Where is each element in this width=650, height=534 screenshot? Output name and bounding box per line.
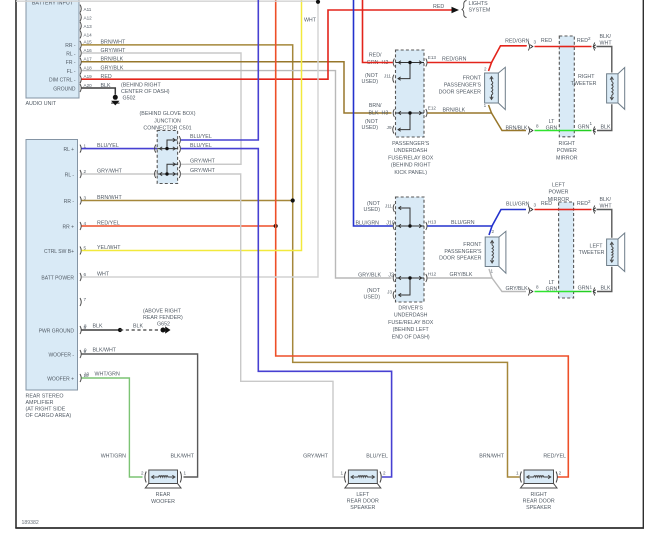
- svg-text:1: 1: [589, 284, 592, 289]
- svg-text:E13: E13: [428, 55, 437, 60]
- svg-text:J2: J2: [388, 272, 394, 278]
- svg-text:WHT: WHT: [600, 40, 613, 46]
- audio unit pin A16: [80, 49, 81, 57]
- svg-text:RL -: RL -: [65, 172, 75, 178]
- svg-text:GRY/BLK: GRY/BLK: [506, 286, 529, 292]
- ground G652: [161, 328, 166, 333]
- svg-text:RL -: RL -: [66, 51, 76, 57]
- wire front passenger speaker pin2 branch to right mirror: [492, 46, 527, 63]
- left power mirror box: [559, 202, 574, 298]
- svg-text:PWR GROUND: PWR GROUND: [39, 328, 75, 334]
- connector 3 right mirror top: [528, 43, 529, 51]
- svg-text:2: 2: [84, 169, 87, 174]
- svg-text:GRN: GRN: [578, 124, 590, 130]
- amplifier pin 8: [80, 326, 81, 334]
- svg-text:DOOR SPEAKER: DOOR SPEAKER: [439, 89, 482, 95]
- wire front passenger speaker pin1 branch to right mirror: [492, 113, 527, 131]
- svg-text:DIM CTRL -: DIM CTRL -: [49, 78, 76, 84]
- svg-text:USED): USED): [362, 79, 379, 85]
- svg-text:GRY/WHT: GRY/WHT: [101, 48, 127, 54]
- connector 8 left mirror bottom: [528, 288, 529, 296]
- audio unit pin A18: [80, 67, 81, 75]
- svg-text:USED): USED): [362, 125, 379, 131]
- svg-text:(ABOVE RIGHT: (ABOVE RIGHT: [143, 309, 182, 315]
- C501 internal GRY/WHT junction: [157, 173, 177, 175]
- svg-text:H13: H13: [428, 220, 437, 225]
- svg-text:FUSE/RELAY BOX: FUSE/RELAY BOX: [388, 155, 434, 161]
- wire amp pin9 BLK/WHT to rear woofer pin 1: [82, 354, 198, 477]
- svg-text:WOOFER +: WOOFER +: [47, 376, 74, 382]
- svg-text:BLK: BLK: [133, 324, 143, 330]
- svg-text:BLK: BLK: [93, 324, 103, 330]
- svg-text:8: 8: [536, 124, 539, 129]
- lights system arrow: [452, 7, 460, 13]
- left tweeter: [607, 239, 618, 266]
- svg-text:A14: A14: [84, 33, 93, 38]
- wire left tweeter bottom BLK: [597, 267, 612, 292]
- svg-text:GRY/BLK: GRY/BLK: [358, 272, 381, 278]
- svg-text:BLU/YEL: BLU/YEL: [366, 454, 388, 460]
- svg-text:GRY/BLK: GRY/BLK: [450, 272, 473, 278]
- svg-text:BLK/WHT: BLK/WHT: [170, 454, 194, 460]
- svg-text:RR +: RR +: [62, 224, 74, 230]
- C501 internal BLU/YEL junction: [157, 148, 177, 150]
- amplifier pin 4: [80, 222, 81, 230]
- amplifier pin 2: [80, 170, 81, 178]
- svg-text:GRY/WHT: GRY/WHT: [97, 168, 123, 174]
- amplifier pin 9: [80, 350, 81, 358]
- wire BLK/WHT to left tweeter: [597, 210, 612, 238]
- svg-text:BRN/BLK: BRN/BLK: [443, 107, 466, 113]
- svg-text:RIGHT: RIGHT: [559, 141, 576, 147]
- svg-text:1: 1: [484, 103, 487, 108]
- svg-text:RR -: RR -: [65, 43, 76, 49]
- svg-text:SPEAKER: SPEAKER: [526, 505, 551, 511]
- svg-text:RED: RED: [541, 201, 552, 207]
- passenger fuse box internal H2-E13 with J11 branch: [396, 62, 425, 64]
- svg-text:A16: A16: [84, 48, 93, 53]
- wire A18 GRY/BLK to driver fuse box J2: [82, 71, 392, 278]
- amplifier pin 3: [80, 197, 81, 205]
- svg-text:WHT/GRN: WHT/GRN: [101, 454, 126, 460]
- svg-text:189382: 189382: [22, 520, 39, 526]
- svg-text:G652: G652: [157, 322, 170, 328]
- wire RED/GRN riser into H2: [363, 0, 393, 63]
- svg-text:1: 1: [184, 471, 187, 476]
- svg-text:3: 3: [534, 203, 537, 208]
- wire A19 RED to lights system: [82, 10, 452, 79]
- wire E13 RED/GRN to front passenger door speaker pin 2: [427, 63, 491, 72]
- wire H13 BLU/GRN to front driver door speaker pin 2: [427, 226, 492, 235]
- svg-text:6: 6: [84, 272, 87, 277]
- wire amp pin1 BLU/YEL into C501: [82, 148, 158, 150]
- svg-text:BLU/YEL: BLU/YEL: [190, 143, 212, 149]
- svg-text:BLU/GRN: BLU/GRN: [451, 220, 475, 226]
- svg-text:2: 2: [484, 66, 487, 71]
- svg-text:1: 1: [516, 471, 519, 476]
- svg-text:GRY/WHT: GRY/WHT: [190, 159, 216, 165]
- wire C501 GRY/WHT branch to A16: [181, 163, 241, 165]
- svg-text:8: 8: [84, 324, 87, 329]
- svg-text:BRN/BLK: BRN/BLK: [506, 125, 528, 131]
- svg-text:H3: H3: [382, 111, 389, 117]
- svg-text:J11: J11: [385, 204, 393, 209]
- amplifier pin 1: [80, 145, 81, 153]
- svg-text:REAR: REAR: [156, 492, 171, 498]
- svg-text:(BEHIND RIGHT: (BEHIND RIGHT: [121, 82, 161, 88]
- connector 2 right mirror top: [594, 43, 595, 51]
- svg-text:FL -: FL -: [67, 69, 76, 75]
- right power mirror box: [559, 36, 574, 137]
- svg-text:J3: J3: [387, 290, 392, 295]
- svg-text:FR -: FR -: [66, 60, 76, 66]
- svg-text:2: 2: [383, 471, 386, 476]
- lights system bracket: [462, 1, 467, 18]
- svg-text:WHT/GRN: WHT/GRN: [95, 372, 120, 378]
- wire E12 BRN/BLK to front passenger door speaker pin 1: [427, 105, 491, 113]
- amplifier pin 10: [80, 374, 81, 382]
- svg-text:RED: RED: [577, 38, 588, 44]
- svg-text:AMPLIFIER: AMPLIFIER: [26, 400, 54, 406]
- svg-text:RED/GRN: RED/GRN: [505, 39, 530, 45]
- svg-text:J9: J9: [387, 125, 392, 130]
- svg-text:SPEAKER: SPEAKER: [350, 505, 375, 511]
- svg-text:USED): USED): [364, 294, 381, 300]
- svg-text:REAR STEREO: REAR STEREO: [26, 394, 64, 400]
- svg-text:WHT: WHT: [600, 203, 613, 209]
- wire driver speaker pin2 branch to left mirror: [492, 210, 526, 227]
- svg-text:A11: A11: [84, 7, 92, 12]
- svg-text:PASSENGER'S: PASSENGER'S: [392, 141, 430, 147]
- svg-text:POWER: POWER: [557, 148, 577, 154]
- wire LT GRN into right mirror bottom: [535, 130, 575, 132]
- driver fuse box internal J10-H13 with J11 branch: [396, 225, 425, 227]
- svg-text:GRY/WHT: GRY/WHT: [303, 454, 329, 460]
- svg-text:DRIVER'S: DRIVER'S: [398, 306, 423, 312]
- svg-text:JUNCTION: JUNCTION: [154, 118, 181, 124]
- wire RED into right mirror top: [535, 46, 560, 48]
- wire A16 GRY/WHT to junction connector C501: [82, 53, 242, 164]
- svg-text:A15: A15: [84, 40, 93, 45]
- svg-text:LEFT: LEFT: [356, 492, 370, 498]
- audio unit pin A11: [80, 5, 81, 13]
- wire BLK/WHT to right tweeter: [597, 47, 612, 73]
- driver fuse box internal J2-H12 with J3 branch: [396, 277, 425, 279]
- svg-text:LT: LT: [549, 280, 556, 286]
- svg-text:9: 9: [84, 348, 87, 353]
- page border bottom: [15, 527, 644, 529]
- svg-text:BRN/WHT: BRN/WHT: [97, 195, 122, 201]
- wire H12 GRY/BLK to front driver door speaker pin 1: [427, 269, 492, 278]
- svg-text:REAR DOOR: REAR DOOR: [523, 499, 555, 505]
- ground G502: [113, 95, 118, 100]
- junction connector C501 box: [157, 131, 177, 184]
- wire RED out of right mirror: [574, 46, 591, 48]
- svg-text:FUSE/RELAY BOX: FUSE/RELAY BOX: [388, 320, 434, 326]
- svg-text:1: 1: [589, 121, 592, 126]
- svg-text:A12: A12: [84, 16, 93, 21]
- svg-text:GROUND: GROUND: [53, 86, 76, 92]
- wire RED/YEL riser to right rear door speaker pin 2: [276, 0, 569, 477]
- svg-text:WHT: WHT: [97, 271, 110, 277]
- svg-text:4: 4: [84, 221, 87, 226]
- svg-text:3: 3: [84, 195, 87, 200]
- rear stereo amplifier box: [26, 140, 78, 391]
- svg-text:POWER: POWER: [548, 190, 568, 196]
- svg-text:OF CARGO AREA): OF CARGO AREA): [26, 413, 72, 419]
- svg-text:CENTER OF DASH): CENTER OF DASH): [121, 89, 170, 95]
- svg-text:BLK: BLK: [601, 285, 611, 291]
- wire RED out of left mirror: [574, 209, 592, 211]
- amplifier pin 7: [80, 298, 81, 306]
- svg-text:2: 2: [491, 229, 494, 234]
- svg-text:BLK/: BLK/: [600, 197, 612, 203]
- wire GRN inside-right of left mirror: [574, 291, 592, 293]
- svg-text:BLK/WHT: BLK/WHT: [93, 348, 117, 354]
- svg-text:USED): USED): [364, 207, 381, 213]
- svg-text:E12: E12: [428, 106, 437, 111]
- svg-text:BLU/YEL: BLU/YEL: [190, 134, 212, 140]
- right rear door speaker: [524, 470, 554, 484]
- wire C501 GRY/WHT main to left rear door speaker pin 1: [181, 174, 345, 477]
- wire amp pin3 BRN/WHT to junction with A15 line: [82, 200, 293, 202]
- svg-text:A13: A13: [84, 24, 93, 29]
- wire RED inside left mirror: [559, 209, 574, 211]
- svg-text:MIRROR: MIRROR: [556, 155, 578, 161]
- svg-text:BLU/YEL: BLU/YEL: [97, 143, 119, 149]
- svg-text:RED/: RED/: [369, 53, 382, 59]
- svg-text:G502: G502: [123, 96, 136, 102]
- svg-text:A17: A17: [84, 57, 93, 62]
- connector 1 left mirror bottom: [594, 288, 595, 296]
- connector 1 right mirror bottom: [594, 127, 595, 135]
- audio unit pin A13: [80, 22, 81, 30]
- svg-text:TWEETER: TWEETER: [571, 81, 597, 87]
- svg-text:A19: A19: [84, 74, 93, 79]
- svg-text:BRN/WHT: BRN/WHT: [479, 454, 504, 460]
- svg-text:7: 7: [84, 297, 87, 302]
- svg-text:2: 2: [559, 471, 562, 476]
- connector 3 left mirror top: [528, 206, 529, 214]
- svg-text:BRN/BLK: BRN/BLK: [101, 57, 124, 63]
- svg-text:RR -: RR -: [64, 199, 75, 205]
- svg-text:AUDIO UNIT: AUDIO UNIT: [26, 101, 57, 107]
- wire right tweeter bottom BLK: [597, 104, 612, 130]
- svg-text:FRONT: FRONT: [463, 75, 482, 81]
- amplifier pin 5: [80, 247, 81, 255]
- wire RED into left mirror top: [535, 209, 559, 211]
- wire amp pin10 WHT/GRN to rear woofer pin 2: [82, 378, 143, 477]
- wire RED inside right mirror: [559, 46, 574, 48]
- audio unit pin A15: [80, 41, 81, 49]
- svg-text:PASSENGER'S: PASSENGER'S: [444, 249, 482, 255]
- passenger underdash fuse/relay box: [396, 50, 425, 137]
- svg-text:BLK: BLK: [601, 124, 611, 130]
- svg-text:1: 1: [84, 143, 87, 148]
- svg-text:UNDERDASH: UNDERDASH: [394, 148, 428, 154]
- svg-text:(BEHIND LEFT: (BEHIND LEFT: [393, 327, 430, 333]
- svg-text:1: 1: [490, 268, 493, 273]
- wire BLU/GRN riser into J10: [354, 0, 393, 226]
- svg-text:LIGHTS: LIGHTS: [469, 1, 489, 7]
- svg-text:RED: RED: [101, 74, 112, 80]
- svg-text:RED: RED: [541, 38, 552, 44]
- wire C501 BLU/YEL branch to top edge: [181, 0, 258, 140]
- svg-text:10: 10: [84, 372, 90, 377]
- svg-text:BLK: BLK: [101, 83, 111, 89]
- svg-text:LT: LT: [549, 119, 556, 125]
- audio unit pin A20: [80, 84, 81, 92]
- svg-text:UNDERDASH: UNDERDASH: [394, 313, 428, 319]
- svg-text:RL +: RL +: [63, 147, 74, 153]
- page border left: [15, 0, 17, 528]
- svg-text:BLK/: BLK/: [600, 34, 612, 40]
- driver underdash fuse/relay box: [396, 197, 425, 302]
- connector 8 right mirror bottom: [528, 127, 529, 135]
- svg-text:CONNECTOR C501: CONNECTOR C501: [143, 126, 191, 132]
- wire amp pin2 GRY/WHT into C501: [82, 173, 158, 175]
- svg-text:BRN/: BRN/: [369, 103, 382, 109]
- audio unit pin A14: [80, 30, 81, 38]
- wire amp pin8 BLK to ground G652: [82, 329, 121, 331]
- wire BLK dashed to G652: [120, 329, 161, 331]
- left rear door speaker: [348, 470, 377, 484]
- svg-text:8: 8: [536, 285, 539, 290]
- svg-text:PASSENGER'S: PASSENGER'S: [444, 82, 482, 88]
- svg-text:GRN: GRN: [546, 125, 558, 131]
- svg-text:(AT RIGHT SIDE: (AT RIGHT SIDE: [26, 407, 66, 413]
- svg-text:(NOT: (NOT: [367, 288, 381, 294]
- passenger fuse box internal H3-E12 with J9 branch: [396, 112, 425, 114]
- svg-text:RED/GRN: RED/GRN: [442, 57, 467, 63]
- svg-text:GRY/BLK: GRY/BLK: [101, 65, 124, 71]
- svg-text:RED/YEL: RED/YEL: [97, 220, 120, 226]
- svg-text:RED: RED: [433, 4, 444, 10]
- svg-text:SYSTEM: SYSTEM: [469, 8, 491, 14]
- svg-text:YEL/WHT: YEL/WHT: [97, 245, 121, 251]
- svg-text:FRONT: FRONT: [463, 242, 482, 248]
- svg-text:END OF DASH): END OF DASH): [392, 334, 430, 340]
- svg-text:BRN/WHT: BRN/WHT: [101, 40, 126, 46]
- front driver door speaker SP2: [485, 237, 499, 267]
- svg-text:WHT: WHT: [304, 18, 317, 24]
- wire A15 BRN/WHT to right rear door speaker pin 1: [82, 45, 520, 477]
- svg-text:BATT POWER: BATT POWER: [41, 275, 74, 281]
- svg-text:5: 5: [84, 245, 87, 250]
- svg-text:1: 1: [340, 471, 343, 476]
- right tweeter: [607, 74, 618, 103]
- front passenger door speaker SP1: [485, 73, 499, 103]
- svg-text:GRY/WHT: GRY/WHT: [190, 168, 216, 174]
- svg-text:WOOFER: WOOFER: [151, 499, 175, 505]
- amplifier pin 6: [80, 273, 81, 281]
- svg-text:2: 2: [588, 199, 591, 204]
- svg-text:BLU/GRN: BLU/GRN: [506, 202, 530, 208]
- audio unit pin A19: [80, 75, 81, 83]
- svg-text:LEFT: LEFT: [590, 244, 604, 250]
- audio unit pin A12: [80, 13, 81, 21]
- junction node amp pin3 / A15: [291, 198, 295, 202]
- svg-text:A18: A18: [84, 65, 93, 70]
- svg-text:3: 3: [534, 40, 537, 45]
- svg-text:CTRL SW B+: CTRL SW B+: [44, 249, 74, 255]
- svg-text:REAR DOOR: REAR DOOR: [347, 499, 379, 505]
- audio unit pin A17: [80, 58, 81, 66]
- connector 2 left mirror top: [594, 206, 595, 214]
- svg-text:RIGHT: RIGHT: [530, 492, 547, 498]
- svg-text:KICK PANEL): KICK PANEL): [394, 170, 427, 176]
- wire driver speaker pin1 branch to left mirror: [492, 278, 526, 292]
- svg-text:(BEHIND GLOVE BOX): (BEHIND GLOVE BOX): [140, 111, 196, 117]
- wire GRN inside-right of right mirror: [574, 130, 591, 132]
- wire amp pin4 RED/YEL to junction: [82, 225, 276, 227]
- svg-text:RIGHT: RIGHT: [578, 74, 595, 80]
- audio unit U1 box: [26, 0, 79, 98]
- wire amp pin5 YEL/WHT riser to top: [82, 0, 302, 251]
- svg-text:RED/YEL: RED/YEL: [543, 454, 566, 460]
- svg-text:TWEETER: TWEETER: [579, 250, 605, 256]
- svg-text:LEFT: LEFT: [552, 183, 566, 189]
- rear woofer speaker: [149, 470, 178, 484]
- svg-text:H12: H12: [428, 272, 437, 277]
- svg-text:DOOR SPEAKER: DOOR SPEAKER: [439, 255, 482, 261]
- svg-text:A20: A20: [84, 83, 93, 88]
- junction node pin8 BLK: [118, 328, 122, 332]
- junction node WHT at top edge: [316, 0, 320, 4]
- svg-text:GRN: GRN: [546, 286, 558, 292]
- svg-text:GRN: GRN: [578, 285, 590, 291]
- svg-text:BLK: BLK: [368, 111, 378, 117]
- wire amp pin6 WHT riser to top: [16, 1, 318, 277]
- svg-text:(BEHIND RIGHT: (BEHIND RIGHT: [391, 163, 431, 169]
- svg-text:REAR FENDER): REAR FENDER): [143, 315, 183, 321]
- svg-text:J11: J11: [384, 74, 392, 79]
- svg-text:2: 2: [588, 36, 591, 41]
- svg-text:RED: RED: [577, 201, 588, 207]
- wire A17 BRN/BLK to passenger fuse box H3: [82, 62, 392, 113]
- junction node amp pin4 / RED-YEL riser: [274, 224, 278, 228]
- wire LT GRN into left mirror bottom: [535, 291, 574, 293]
- page border right: [642, 0, 644, 528]
- wire C501 BLU/YEL main to left rear door speaker pin 2: [181, 149, 392, 477]
- svg-text:WOOFER -: WOOFER -: [48, 352, 74, 358]
- svg-text:2: 2: [141, 471, 144, 476]
- wire A20 BLK to ground G502: [82, 88, 116, 95]
